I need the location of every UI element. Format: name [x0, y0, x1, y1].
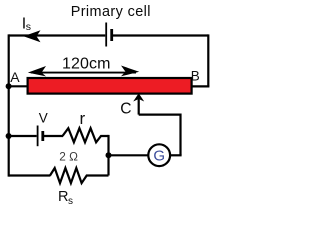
wire: cell to resistor r	[44, 135, 63, 137]
battery B1 short thick plate	[110, 29, 113, 41]
cell V long plate	[37, 126, 39, 147]
dimension line 120cm	[31, 72, 136, 74]
wire: left vertical	[8, 34, 10, 176]
dimension arrowhead right	[121, 66, 139, 77]
wire: V-r branch from left vertical	[9, 135, 37, 137]
svg-text:C: C	[120, 100, 131, 117]
svg-text:V: V	[39, 110, 48, 125]
svg-text:r: r	[80, 109, 86, 128]
svg-text:R: R	[58, 189, 68, 205]
wire: G left to junction	[109, 154, 149, 156]
wire: B connection	[192, 85, 210, 87]
wire: jockey shaft	[138, 99, 140, 115]
svg-text:2 Ω: 2 Ω	[59, 149, 78, 163]
svg-text:120cm: 120cm	[62, 55, 111, 72]
wire: middle vertical (r/Rs junction to G tap)	[107, 135, 109, 176]
wire: jockey horizontal to right	[139, 113, 181, 115]
junction dot on left vertical at V branch	[6, 133, 12, 139]
resistor Rs zigzag	[50, 168, 109, 183]
svg-text:Primary cell: Primary cell	[71, 4, 151, 20]
resistor r zigzag	[63, 128, 109, 142]
potentiometer wire AB (red bar)	[28, 78, 192, 94]
svg-text:s: s	[26, 21, 31, 33]
wire: A connection	[9, 85, 27, 87]
cell V short thick plate	[41, 131, 44, 141]
dimension arrowhead left	[28, 66, 46, 76]
wire: top horizontal right of battery	[113, 34, 208, 36]
svg-text:A: A	[10, 69, 20, 85]
arrow: Is current direction (points left)	[24, 30, 41, 42]
svg-text:G: G	[153, 148, 165, 165]
svg-text:B: B	[191, 68, 200, 83]
svg-text:s: s	[68, 196, 73, 207]
junction dot at A	[6, 83, 12, 89]
wire: right vertical	[207, 34, 209, 86]
wire: right branch vertical down to G	[179, 114, 181, 156]
jockey arrow at C (points up into bar)	[133, 93, 144, 101]
battery B1 long plate	[105, 23, 107, 47]
wire: top horizontal left of battery	[9, 34, 106, 36]
wire: bottom branch left	[9, 174, 51, 176]
wire: into G right side	[171, 154, 182, 156]
junction dot at G tap	[106, 152, 112, 158]
galvanometer G	[148, 144, 170, 166]
